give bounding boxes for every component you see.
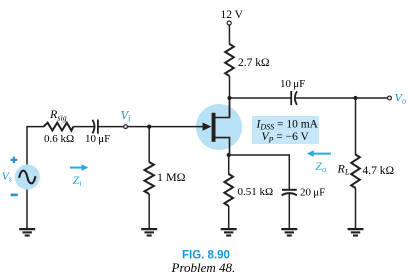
wire: left vertical from top wire to ground [26, 127, 28, 229]
ground (RL branch) [348, 229, 364, 235]
wire: drain node to C2 [230, 97, 292, 99]
node RL junction [353, 96, 357, 100]
wire: top horizontal, left segment to Rsig [26, 126, 44, 128]
wire: 1M branch down [148, 127, 150, 163]
wire: source node to CS branch [229, 155, 290, 189]
transistor Q1 channel bar [212, 113, 216, 142]
capacitor C2 10uF (output coupling) [290, 91, 292, 105]
transistor Q1 drain lead [216, 98, 230, 118]
arrow Zi [70, 167, 83, 169]
svg-text:0.6 kΩ: 0.6 kΩ [44, 133, 74, 145]
node Vo terminal [388, 96, 392, 100]
ground (Vs branch) [19, 229, 35, 235]
svg-text:10 μF: 10 μF [85, 133, 110, 145]
ground (RS branch) [221, 229, 237, 235]
JFET Q1 highlight circle [196, 104, 242, 150]
source Vs (sine source) [15, 164, 40, 189]
wire: CS to ground [288, 194, 290, 229]
label + (plus polarity) [11, 157, 18, 164]
transistor Q1 JFET gate arrow [203, 123, 212, 131]
node source junction [227, 153, 231, 157]
wire: RL branch down [355, 98, 357, 155]
svg-text:10 μF: 10 μF [280, 78, 305, 90]
wire: RL to ground [355, 188, 357, 229]
ground (1M branch) [141, 229, 157, 235]
capacitor CS 20uF [282, 189, 297, 191]
resistor RG 1 MOhm [145, 162, 154, 194]
svg-text:1 MΩ: 1 MΩ [157, 170, 186, 184]
wire: RS to ground [228, 206, 230, 229]
svg-text:2.7 kΩ: 2.7 kΩ [238, 57, 270, 69]
wire: source node to RS [228, 155, 230, 175]
wire: RD to drain node [229, 76, 231, 117]
node junction at gate/1M [147, 125, 151, 129]
arrow Zo [313, 153, 331, 155]
node drain junction [227, 96, 231, 100]
transistor Q1 source lead [216, 138, 230, 155]
resistor Rsig 0.6 kOhm [44, 123, 74, 131]
svg-text:Problem 48.: Problem 48. [171, 260, 236, 275]
resistor RS 0.51 kOhm [224, 174, 233, 206]
label box IDSS / VP [252, 116, 319, 144]
wire: between Rsig and C1 [73, 126, 93, 128]
wire: C2 to Vo [295, 97, 387, 99]
ground (CS branch) [281, 229, 297, 235]
label - (minus polarity) [11, 194, 18, 197]
wire: C1 to gate of JFET [98, 126, 205, 128]
node Vi terminal [124, 125, 128, 129]
wire: supply to RD [228, 25, 230, 45]
svg-text:20 μF: 20 μF [300, 187, 325, 199]
svg-text:4.7 kΩ: 4.7 kΩ [363, 165, 395, 177]
capacitor C1 10uF (input coupling) [92, 120, 94, 134]
svg-text:0.51 kΩ: 0.51 kΩ [238, 186, 274, 198]
wire: 1M to ground [148, 194, 150, 229]
svg-text:12 V: 12 V [221, 9, 244, 21]
resistor RL 4.7 kOhm [351, 155, 360, 189]
resistor RD 2.7 kOhm [225, 44, 234, 76]
node 12V supply terminal [227, 21, 231, 25]
